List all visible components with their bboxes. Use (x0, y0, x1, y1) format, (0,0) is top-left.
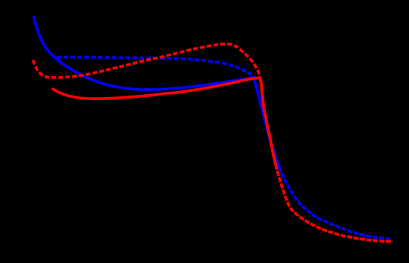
red solid curve (52, 78, 276, 166)
blue tail (dashed, after plunge) (254, 80, 392, 240)
red tail (dashed, after plunge) (262, 88, 392, 242)
red dashed curve (33, 44, 262, 86)
blue dashed curve (flat branch) (57, 57, 255, 77)
blue solid curve (34, 16, 281, 172)
